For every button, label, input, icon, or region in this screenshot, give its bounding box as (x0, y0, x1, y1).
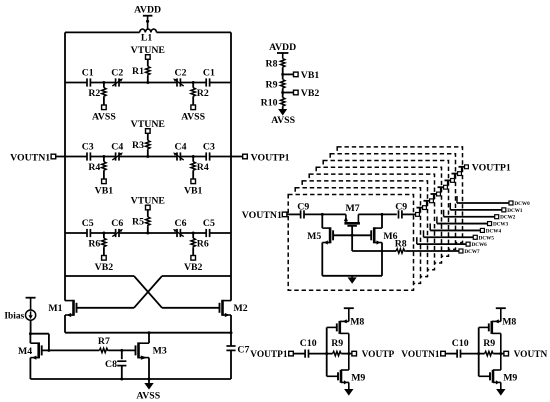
terminal DCW2 (495, 215, 499, 219)
wire M4 gate to R7 (42, 349, 100, 351)
terminal cell output 5 (444, 185, 448, 189)
svg-text:R3: R3 (132, 140, 144, 151)
terminal cell output 3 (430, 199, 434, 203)
junction dot on AVDD stem (146, 20, 149, 23)
svg-text:M7: M7 (346, 203, 360, 214)
wire VB2 tap (283, 92, 294, 94)
terminal VOUTN1 (buffer input) (441, 351, 446, 356)
dashed box cell 2 (295, 188, 420, 284)
wire top rail right of L1 (157, 31, 232, 33)
terminal DCW6 (466, 242, 470, 246)
ground (cell) (351, 276, 353, 278)
terminal VB1 (294, 72, 299, 77)
terminal cell output 4 (437, 192, 441, 196)
wire M1 source to common rail (64, 315, 66, 333)
svg-text:VB1: VB1 (95, 186, 114, 197)
wire VB1 tap (283, 73, 294, 75)
wire output staircase link 6 (455, 174, 458, 180)
capacitor C5 (left) (86, 229, 88, 237)
svg-text:VOUTP1: VOUTP1 (472, 162, 511, 173)
svg-text:VOUTN1: VOUTN1 (401, 350, 440, 360)
wire row at y=156.5 (65, 156, 87, 158)
node dots on row (102, 155, 105, 158)
wire DCW3 control line (436, 217, 438, 224)
capacitor C9 (left) (300, 210, 302, 218)
wire C10 to gate node (309, 353, 333, 355)
svg-text:VOUTP1: VOUTP1 (250, 350, 288, 360)
wire Ibias to M4 node (30, 320, 32, 334)
terminal cell output 1 (416, 213, 420, 217)
wire buffer gate column (326, 327, 328, 376)
resistor R10 (divider) (281, 98, 285, 107)
svg-text:DCW2: DCW2 (500, 215, 516, 221)
terminal VB2 (294, 90, 299, 95)
resistor R8 (divider) (281, 59, 285, 68)
ground AVSS (core) (148, 379, 150, 383)
wire top rail left of L1 (65, 31, 140, 33)
resistor R9 (buffer) (485, 351, 494, 355)
svg-text:C9: C9 (297, 202, 309, 213)
svg-text:C3: C3 (203, 142, 215, 153)
terminal DCW5 (473, 235, 477, 239)
wire right rail to C7 (230, 333, 232, 346)
wire output staircase link 5 (448, 180, 451, 186)
svg-text:VB1: VB1 (301, 70, 320, 81)
wire C9 to node A (304, 213, 346, 215)
svg-text:M9: M9 (351, 372, 365, 383)
wire row at y=233.0 (65, 232, 87, 234)
svg-text:R9: R9 (331, 338, 343, 349)
wire cross-couple upper left (65, 275, 134, 277)
dashed box cell 6 (323, 161, 448, 257)
svg-text:R9: R9 (483, 338, 495, 349)
node dot M4 diode junction (29, 332, 32, 335)
svg-text:R4: R4 (88, 162, 100, 173)
svg-text:R4: R4 (197, 162, 209, 173)
terminal cell output 2 (423, 206, 427, 210)
svg-text:DCW1: DCW1 (507, 208, 523, 214)
terminal cell output 8 (465, 165, 469, 169)
wire node B riser to M6 drain (381, 214, 383, 228)
svg-text:M4: M4 (18, 346, 32, 357)
VTUNE terminal (146, 205, 151, 210)
node dot C8 tap (120, 349, 123, 352)
supply bar above Ibias (26, 297, 36, 299)
wire input to C10 (445, 353, 457, 355)
node dot on M4 gate line (47, 349, 50, 352)
terminal VOUTP (buffer output) (349, 353, 352, 355)
terminal VB2 (right) (191, 256, 196, 261)
varactor C6 (right) (176, 229, 178, 237)
wire node A to M5 drain (321, 214, 323, 228)
ground (buffer) (348, 382, 350, 389)
wire DCW4 control line (429, 223, 431, 230)
svg-text:R7: R7 (98, 336, 110, 347)
resistor R4 (left) to VB1 (103, 157, 105, 162)
svg-text:DCW4: DCW4 (486, 228, 502, 234)
resistor R9 (divider) (281, 80, 285, 89)
wire VOUTP1 row-2 extension right (231, 156, 243, 158)
wire cell 8 output stub (459, 166, 465, 168)
terminal DCW1 (502, 208, 506, 212)
svg-text:M1: M1 (48, 303, 62, 314)
wire buffer gate column (478, 327, 480, 376)
wire cell 3 output stub (424, 200, 430, 202)
capacitor C1 (right) (205, 78, 207, 86)
wire M5 source down (321, 243, 323, 276)
svg-text:DCW5: DCW5 (479, 235, 495, 241)
svg-text:DCW0: DCW0 (514, 201, 530, 207)
transistor M2 (221, 300, 224, 316)
transistor M9 (NMOS) (327, 375, 338, 377)
svg-text:VOUTN1: VOUTN1 (242, 210, 282, 221)
wire M3 drain to rail (148, 333, 150, 344)
svg-text:C2: C2 (175, 68, 187, 79)
terminal DCW3 (488, 222, 492, 226)
node dot buffer gate (325, 352, 328, 355)
wire gate node to R8 (352, 250, 396, 252)
wire common source rail (65, 332, 231, 334)
svg-text:R2: R2 (197, 88, 209, 99)
supply bar (buffer) (500, 308, 502, 321)
svg-text:C1: C1 (203, 68, 215, 79)
svg-text:DCW7: DCW7 (464, 249, 480, 255)
svg-text:R6: R6 (88, 239, 100, 250)
svg-text:C6: C6 (175, 218, 187, 229)
wire M4 source down (29, 358, 31, 379)
terminal VOUTN (buffer output) (501, 353, 504, 355)
resistor R2 (left) to AVSS (103, 83, 105, 88)
svg-text:M2: M2 (234, 303, 248, 314)
wire DCW1 control line (449, 203, 451, 210)
wire bottom rail (30, 378, 231, 380)
dashed box cell 5 (316, 167, 441, 263)
varactor C6 (left) (115, 229, 117, 237)
svg-text:C10: C10 (300, 338, 317, 349)
svg-text:VB2: VB2 (184, 262, 203, 273)
wire row at y=82.5 (65, 82, 87, 84)
wire C9 right to output terminal (402, 213, 415, 215)
node dot buffer output (347, 352, 350, 355)
svg-text:M9: M9 (503, 372, 517, 383)
wire output staircase link 7 (462, 167, 465, 173)
svg-text:C5: C5 (203, 218, 215, 229)
wire VOUTN1 row-2 extension left (56, 156, 65, 158)
capacitor C8 (121, 350, 123, 359)
varactor C4 (left) (115, 152, 117, 160)
wire cell 7 output stub (452, 173, 458, 175)
svg-text:VB1: VB1 (184, 186, 203, 197)
resistor R5 to VTUNE (147, 210, 149, 217)
svg-text:M3: M3 (153, 346, 167, 357)
wire DCW5 control line (423, 230, 425, 237)
svg-text:R8: R8 (266, 59, 278, 70)
svg-text:DCW6: DCW6 (472, 242, 488, 248)
node dot VB2 (281, 91, 284, 94)
svg-text:AVSS: AVSS (136, 391, 160, 402)
wire input to C10 (293, 353, 305, 355)
current source Ibias (26, 310, 36, 320)
capacitor C3 (left) (86, 152, 88, 160)
svg-text:AVSS: AVSS (271, 115, 295, 126)
wire M3 source down (148, 358, 150, 379)
node dot buffer output (499, 352, 502, 355)
node dot M3 drain on rail (148, 331, 151, 334)
inductor L1 (center-tapped coil) (140, 29, 146, 32)
resistor R8 (cell) (396, 249, 405, 253)
wire cell 4 output stub (431, 193, 437, 195)
wire M7 node B to C9 right (358, 213, 396, 215)
node dot VB1 (281, 73, 284, 76)
wire R8 to DCW7 (405, 250, 458, 252)
svg-text:R5: R5 (132, 217, 144, 228)
svg-text:C6: C6 (111, 218, 123, 229)
node dots on row (102, 81, 105, 84)
svg-text:M5: M5 (307, 231, 321, 242)
wire output staircase link 1 (420, 208, 423, 214)
wire M2 gate lead (162, 307, 220, 309)
svg-text:R10: R10 (261, 98, 278, 109)
wire diode link to gate (30, 333, 49, 335)
wire cross-couple upper right (162, 275, 231, 277)
wire output staircase link 4 (441, 187, 444, 193)
transistor M4 (37, 342, 40, 358)
wire cross-couple diagonal right-to-M1 (134, 276, 162, 308)
wire cross-couple diagonal left-to-M2 (134, 276, 162, 308)
transistor M9 (NMOS) (479, 375, 490, 377)
wire input to C9 (287, 213, 301, 215)
svg-text:R1: R1 (132, 66, 144, 77)
wire right tank rail (230, 32, 232, 300)
node dot AVSS tap (148, 378, 151, 381)
svg-text:C7: C7 (237, 344, 249, 355)
resistor R3 to VTUNE (147, 133, 149, 140)
terminal DCW0 (509, 201, 513, 205)
wire DCW6 control line (416, 237, 418, 244)
svg-text:VOUTP: VOUTP (362, 350, 395, 360)
wire DCW2 control line (443, 210, 445, 217)
svg-text:C9: C9 (395, 202, 407, 213)
wire M1 gate lead (77, 307, 135, 309)
supply bar (buffer) (348, 308, 350, 321)
transistor M7 (top switch) (345, 214, 347, 222)
terminal VOUTN1 (tank left output) (51, 154, 56, 159)
terminal AVSS (left) (102, 105, 107, 110)
wire output staircase link 2 (427, 201, 430, 207)
VTUNE terminal (146, 55, 151, 60)
varactor C4 (right) (176, 152, 178, 160)
terminal VB1 (right) (191, 179, 196, 184)
dashed box cell 3 (302, 181, 427, 277)
capacitor C3 (right) (205, 152, 207, 160)
terminal DCW4 (480, 228, 484, 232)
wire M6 source down (381, 243, 383, 276)
terminal DCW7 (459, 249, 463, 253)
svg-text:VOUTP1: VOUTP1 (251, 152, 290, 163)
transistor M1 (72, 300, 75, 316)
svg-text:R6: R6 (197, 239, 209, 250)
wire M4 drain riser (29, 334, 31, 344)
dashed box cell 7 (330, 154, 455, 250)
wire cell 6 output stub (445, 179, 451, 181)
terminal VB2 (left) (102, 256, 107, 261)
wire M5-M6 gate link (333, 234, 371, 236)
wire cell ground rail (322, 275, 382, 277)
dashed box cell 4 (309, 174, 434, 270)
svg-text:C8: C8 (105, 359, 117, 370)
svg-text:C4: C4 (111, 142, 123, 153)
wire cell 5 output stub (438, 186, 444, 188)
terminal cell output 7 (458, 172, 462, 176)
resistor R6 (left) to VB2 (103, 233, 105, 238)
VTUNE terminal (146, 129, 151, 134)
wire R7 to M3 gate (109, 349, 136, 351)
svg-text:C1: C1 (82, 68, 94, 79)
terminal VOUTP1 (buffer input) (289, 351, 294, 356)
node dot M7 gate tap (351, 234, 354, 237)
capacitor C10 (304, 350, 306, 358)
resistor R4 (right) to VB1 (192, 157, 194, 162)
wire M2 source to common rail (230, 315, 232, 333)
svg-text:VB2: VB2 (95, 262, 114, 273)
varactor C2 (right) (176, 78, 178, 86)
wire output staircase link 3 (434, 194, 437, 200)
svg-text:VTUNE: VTUNE (131, 45, 166, 56)
svg-text:R8: R8 (395, 238, 407, 249)
dashed box cell 8 (337, 147, 462, 243)
resistor R7 (99, 348, 108, 352)
svg-text:VTUNE: VTUNE (131, 196, 166, 207)
node dots on row (102, 232, 105, 235)
capacitor C9 (right) (398, 210, 400, 218)
transistor M8 (PMOS) (479, 326, 489, 328)
capacitor C1 (left) (86, 78, 88, 86)
terminal VB1 (left) (102, 179, 107, 184)
svg-text:DCW3: DCW3 (493, 222, 509, 228)
wire DCW0 control line (456, 196, 458, 203)
svg-text:VOUTN1: VOUTN1 (10, 152, 50, 163)
node B dot (381, 213, 384, 216)
svg-text:M8: M8 (350, 317, 364, 328)
node dot buffer gate (477, 352, 480, 355)
svg-text:VB2: VB2 (301, 88, 320, 99)
svg-text:AVSS: AVSS (92, 112, 116, 123)
terminal VOUTP1 (tank right output) (243, 154, 248, 159)
node dot right rail C7 tap (230, 331, 233, 334)
svg-text:AVDD: AVDD (269, 42, 296, 53)
ground AVSS (divider) (282, 107, 284, 109)
svg-text:VTUNE: VTUNE (131, 119, 166, 130)
svg-text:AVSS: AVSS (181, 112, 205, 123)
svg-text:C2: C2 (111, 68, 123, 79)
resistor R6 (right) to VB2 (192, 233, 194, 238)
transistor M3 (137, 342, 140, 358)
wire M7 gate stem (351, 226, 353, 251)
transistor M5 (329, 227, 332, 243)
svg-text:L1: L1 (141, 33, 153, 44)
resistor R1 to VTUNE (147, 59, 149, 66)
wire cell 2 output stub (417, 207, 423, 209)
svg-text:VOUTN: VOUTN (514, 350, 548, 360)
ground (buffer) (500, 382, 502, 389)
varactor C2 (left) (115, 78, 117, 86)
terminal AVSS (right) (191, 105, 196, 110)
transistor M6 (373, 227, 376, 243)
svg-text:C10: C10 (452, 338, 469, 349)
AVDD supply terminal (top) (143, 15, 153, 17)
capacitor C7 (226, 345, 235, 347)
capacitor C10 (456, 350, 458, 358)
svg-text:R9: R9 (266, 80, 278, 91)
svg-text:C4: C4 (175, 142, 187, 153)
terminal cell output 6 (451, 179, 455, 183)
capacitor C5 (right) (205, 229, 207, 237)
svg-text:R2: R2 (88, 88, 100, 99)
wire C10 to gate node (461, 353, 485, 355)
svg-text:Ibias: Ibias (4, 311, 24, 321)
svg-text:C3: C3 (82, 142, 94, 153)
node A dot (321, 213, 324, 216)
svg-text:M8: M8 (502, 317, 516, 328)
svg-text:AVDD: AVDD (134, 5, 161, 16)
node dot C8 bottom (120, 378, 123, 381)
dashed box cell 1 (front) (288, 195, 413, 291)
wire left tank rail (64, 32, 66, 300)
resistor R9 (buffer) (333, 351, 342, 355)
resistor R2 (right) to AVSS (192, 83, 194, 88)
svg-text:C5: C5 (82, 218, 94, 229)
transistor M8 (PMOS) (327, 326, 337, 328)
